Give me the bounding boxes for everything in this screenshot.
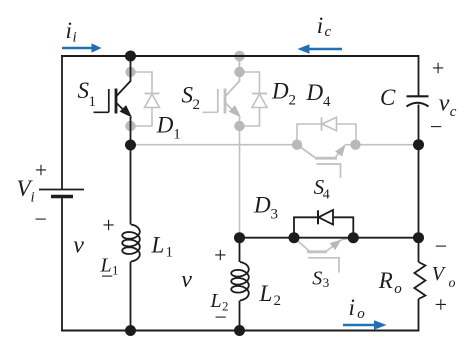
svg-text:o: o [449,276,456,291]
wire: gray mid-rail from S1 emitter node to S4 left node [131,144,298,146]
svg-text:i: i [317,13,323,38]
transistor S2 emitter with arrow [226,103,235,112]
label Ro [378,268,403,297]
junction dot: S1 emitter / gray rail node [125,140,136,151]
svg-text:i: i [349,295,355,320]
wire: S2 emitter down to D3 node (gray vertical) [239,117,241,238]
diode D2 symbol [252,94,267,108]
current arrow i_c (blue, leftward) [298,44,343,54]
inductor L1 coil [122,225,140,262]
wire: top rail [61,55,419,57]
diode D2 (gray antiparallel diode of S2): loop wire [240,72,260,126]
junction dot: D3 left node [289,232,300,243]
svg-text:−: − [430,114,442,139]
gray junction dot on top rail (S2 branch) [234,51,245,62]
junction dot: D3 right node [348,232,359,243]
resistor Ro zigzag [414,262,425,299]
svg-text:i: i [31,190,35,206]
svg-text:D: D [271,79,289,104]
svg-text:+: + [435,292,447,317]
label Vi (source) [17,176,35,206]
svg-text:−: − [215,305,227,330]
svg-text:1: 1 [89,94,97,110]
junction dot: right rail / gray mid-rail [413,139,424,150]
transistor S3 emitter with arrow [326,240,341,252]
svg-text:v: v [181,267,192,293]
transistor S1 gate bar and gate lead [94,89,109,112]
wire: D3/S3 horizontal branch from L2 node to right rail [240,237,419,239]
label L2 subscript of vL2 [210,290,229,314]
label L1 subscript of vL1 [100,255,119,278]
transistor S1 (black IGBT): collector wire from top rail [117,56,131,96]
wire: right rail top (rail to capacitor) [418,55,420,96]
svg-text:+: + [214,242,226,267]
label i_o (output current) [349,295,366,322]
svg-text:L: L [151,233,165,258]
svg-text:4: 4 [323,187,330,202]
svg-text:v: v [439,91,450,117]
svg-text:C: C [380,85,396,110]
wire: left rail lower (battery to bottom rail) [61,197,63,332]
svg-text:c: c [325,24,332,40]
svg-text:−: − [101,263,113,288]
transistor S2 gate bar and gate lead [203,89,218,112]
battery source Vi: long plate [39,189,84,191]
gray junction dot: S4/D4 right [350,140,360,150]
diode D1 symbol (triangle up, cathode bar top) [145,94,160,108]
transistor S4 emitter with arrow [335,146,344,158]
transistor S1 emitter with arrow [117,103,126,112]
transistor S3 (gray IGBT, horizontal): collector lead [295,238,310,251]
svg-text:v: v [73,233,84,259]
svg-text:+: + [102,212,114,237]
svg-text:2: 2 [289,93,297,109]
label D1 [156,113,181,143]
wire: S1 emitter down through L1 top node [130,117,132,225]
transistor S4 gate bar and lead [317,164,341,178]
junction dot: right rail / D3 branch [413,232,424,243]
gray junction dot: S1/D1 top [125,67,135,77]
junction dot: top rail / S1 [125,51,136,62]
svg-text:c: c [450,104,457,120]
svg-text:D: D [156,113,174,138]
wire: right rail middle (capacitor to resistor) [418,105,420,263]
gray junction dot: S1/D1 bottom [125,121,135,131]
label D3 [253,192,278,222]
label D4 [306,80,332,110]
label S2 [182,83,201,114]
transistor S2 body bar [224,89,227,114]
gray junction dot: S4/D4 left [292,140,302,150]
wire: L2 bottom to bottom rail [239,301,241,331]
diode D3 bypass loop [294,217,353,237]
label S4 [314,175,330,203]
diode D3 symbol (points left, cathode bar left) [318,210,333,225]
svg-text:o: o [357,306,365,322]
diode D1 (gray antiparallel diode of S1): loop wire [131,72,153,126]
svg-text:i: i [66,18,72,43]
svg-text:R: R [378,268,393,293]
junction dot: bottom rail / L1 [125,325,136,336]
diode D4 (gray) bypass loop [297,124,356,145]
svg-text:o: o [394,281,402,297]
svg-text:3: 3 [271,206,279,222]
capacitor C: straight top plate [407,95,429,97]
diode D4 symbol (points left, cathode bar left) [322,117,337,130]
svg-text:2: 2 [274,293,282,309]
wire: left rail upper (to battery) [61,55,63,190]
transistor S2 (gray IGBT) branch wire from top rail [226,56,240,96]
gray junction dot: S2/D2 top [234,67,244,77]
label i_c (capacitor current) [317,13,332,40]
wire: gray mid-rail from S4 right node to right rail [356,144,419,146]
label v_c [439,91,457,120]
label D2 [271,79,296,109]
svg-text:−: − [35,206,47,231]
label L2 (inductor name) [259,281,282,309]
svg-text:−: − [435,233,447,258]
current arrow i_i (blue, rightward) [62,43,102,53]
svg-text:S: S [312,268,322,290]
label Vo [432,263,456,291]
transistor S3 body bar [307,250,327,253]
wire: L2 node to L2 coil [239,238,241,263]
transistor S4 (gray IGBT, horizontal): collector lead [298,145,316,158]
wire: right rail bottom (resistor to bottom rail) [418,299,420,332]
label i_i (input current) [66,18,77,45]
junction dot: bottom rail / L2 [234,325,245,336]
transistor S1 body bar [115,89,118,114]
wire: bottom rail [61,330,419,332]
svg-text:4: 4 [323,94,331,110]
svg-text:+: + [432,55,444,80]
svg-text:1: 1 [166,245,174,261]
inductor L2 coil [231,262,249,301]
svg-text:L: L [259,281,273,306]
svg-text:1: 1 [173,127,181,143]
svg-text:D: D [253,192,271,217]
transistor S4 body bar [315,157,337,160]
capacitor C: curved bottom plate [407,103,429,107]
junction dot: L2 top / D3 branch [234,232,245,243]
wire: L1 bottom to bottom rail [130,262,132,331]
label S3 [312,268,329,291]
battery source Vi: short thick plate [51,195,73,199]
svg-text:2: 2 [193,97,201,113]
gray junction dot: S2/D2 bottom [234,121,244,131]
current arrow i_o (blue, rightward) [343,320,387,330]
label S1 [78,78,97,110]
svg-text:+: + [35,157,47,182]
svg-text:i: i [73,29,77,45]
label L1 (inductor name) [151,233,174,261]
svg-text:D: D [306,80,324,105]
transistor S3 gate bar and lead [308,258,339,273]
svg-text:3: 3 [323,275,330,290]
